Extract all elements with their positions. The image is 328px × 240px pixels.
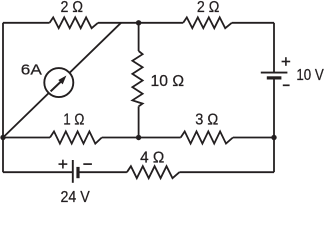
- resistor R2 2ohm top-right: [183, 17, 232, 28]
- battery B1 10V long plate: [261, 72, 288, 74]
- wire diagonal ammeter branch: [3, 23, 121, 138]
- svg-text:10 Ω: 10 Ω: [151, 73, 185, 90]
- resistor R3 10ohm vertical: [132, 51, 142, 106]
- wire bottom-right segment: [179, 171, 274, 173]
- svg-text:10 V: 10 V: [296, 67, 324, 84]
- svg-text:6A: 6A: [21, 61, 42, 78]
- battery B2 minus sign: [83, 163, 92, 165]
- wire top-left segment: [3, 22, 50, 24]
- battery B1 plus sign: [282, 57, 291, 66]
- battery B2 24V short thick plate: [76, 167, 79, 178]
- resistor R4 4ohm bottom: [127, 166, 179, 178]
- battery B1 10V short thick plate: [267, 76, 282, 79]
- wire left side: [2, 23, 4, 172]
- wire middle-right segment: [233, 137, 274, 139]
- node dot middle-left: [0, 135, 5, 140]
- svg-text:24 V: 24 V: [60, 189, 90, 203]
- battery B1 minus sign: [283, 84, 290, 86]
- wire middle-left segment: [3, 137, 50, 139]
- battery B2 24V long plate: [72, 160, 74, 183]
- resistor R5 1ohm middle-left: [50, 131, 102, 143]
- wire bottom-left segment: [3, 171, 73, 173]
- wire vertical bottom stub: [138, 106, 140, 137]
- resistor R6 3ohm middle-right: [181, 131, 233, 143]
- battery B2 plus sign: [59, 160, 68, 169]
- wire right side lower: [273, 78, 275, 172]
- svg-text:2 Ω: 2 Ω: [197, 0, 220, 16]
- ammeter needle arrowhead: [58, 76, 66, 85]
- resistor R1 2ohm top-left: [50, 17, 98, 28]
- wire top-right segment: [232, 22, 274, 24]
- node dot middle-right: [271, 135, 276, 140]
- svg-text:1 Ω: 1 Ω: [63, 112, 84, 129]
- wire bottom battery-to-resistor: [78, 171, 127, 173]
- wire top-middle segment: [98, 22, 183, 24]
- ammeter needle: [51, 82, 61, 92]
- svg-text:4 Ω: 4 Ω: [140, 149, 164, 166]
- node dot top: [136, 20, 141, 25]
- ammeter U1 circle: [44, 68, 73, 97]
- wire middle-center segment: [102, 137, 181, 139]
- node dot middle-center: [136, 135, 141, 140]
- svg-text:2 Ω: 2 Ω: [61, 0, 84, 16]
- wire right side upper: [273, 23, 275, 73]
- wire vertical top stub: [138, 23, 140, 51]
- svg-text:3 Ω: 3 Ω: [195, 112, 218, 129]
